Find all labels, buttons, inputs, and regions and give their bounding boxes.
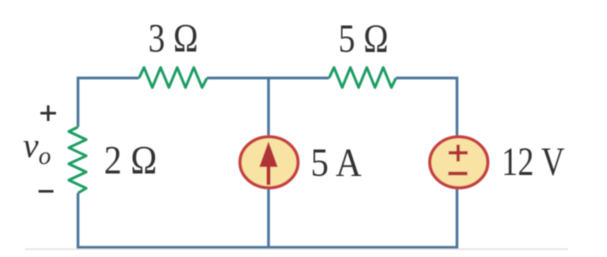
page edge line bbox=[25, 248, 568, 250]
svg-text:5 Ω: 5 Ω bbox=[338, 16, 388, 61]
svg-text:12 V: 12 V bbox=[502, 139, 565, 184]
resistor 5 ohm zigzag bbox=[329, 68, 396, 88]
voltage source plus sign bbox=[449, 145, 468, 162]
voltage source minus sign bbox=[448, 172, 467, 175]
resistor 3 ohm zigzag bbox=[139, 68, 207, 88]
svg-text:5 A: 5 A bbox=[311, 140, 362, 185]
current source 5A circle bbox=[240, 137, 298, 188]
label minus polarity bbox=[39, 190, 54, 193]
current source arrow bbox=[259, 142, 277, 186]
svg-text:vo: vo bbox=[23, 126, 51, 170]
svg-text:3 Ω: 3 Ω bbox=[148, 16, 198, 61]
wire: top middle segment bbox=[207, 77, 329, 80]
resistor 2 ohm vertical zigzag bbox=[69, 127, 86, 193]
wire: middle vertical top bbox=[267, 78, 270, 138]
svg-text:2 Ω: 2 Ω bbox=[104, 138, 157, 183]
wire: middle vertical bottom bbox=[267, 187, 270, 247]
wire: top right segment with right vertical bbox=[396, 78, 457, 137]
wire: left vertical top segment and top-left horizontal bbox=[78, 78, 139, 127]
voltage source 12V circle bbox=[430, 137, 488, 188]
label plus polarity bbox=[40, 105, 56, 121]
wire: left vertical bottom, bottom wire, right vertical bottom bbox=[78, 188, 457, 247]
